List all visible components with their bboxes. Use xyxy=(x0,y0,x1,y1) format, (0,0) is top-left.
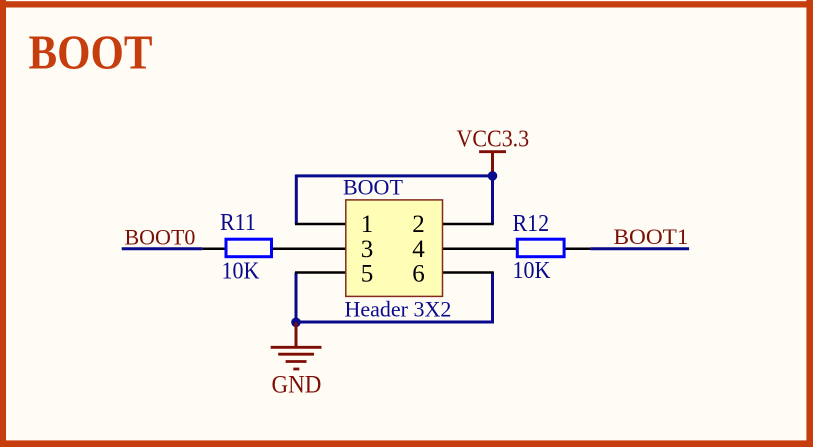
svg-text:GND: GND xyxy=(272,371,322,399)
header P1 pin 2 lead xyxy=(443,223,494,226)
ground GND stem xyxy=(295,322,298,347)
svg-text:6: 6 xyxy=(412,261,425,288)
header P1 pin 6 lead xyxy=(443,271,494,274)
wire right vertical from VCC junction to pin 2 xyxy=(491,175,494,225)
ground GND bar 3 xyxy=(286,360,307,363)
header P1 body (Header 3X2) xyxy=(346,200,443,297)
svg-text:5: 5 xyxy=(361,261,374,288)
resistor R11 right lead xyxy=(273,247,346,250)
svg-text:BOOT: BOOT xyxy=(343,175,403,200)
svg-text:4: 4 xyxy=(412,236,425,263)
svg-text:BOOT0: BOOT0 xyxy=(125,225,196,250)
svg-text:2: 2 xyxy=(412,211,425,238)
resistor R11 body xyxy=(226,239,272,257)
wire left vertical riser to pin 1 xyxy=(295,175,298,225)
ground GND bar 2 xyxy=(278,353,314,356)
wire net BOOT1 horizontal xyxy=(590,247,689,250)
junction dot at GND / bottom wire xyxy=(291,318,301,328)
svg-text:10K: 10K xyxy=(513,257,551,283)
header P1 pin 4 lead xyxy=(443,247,517,250)
junction dot at VCC / pin2 riser xyxy=(488,171,498,181)
ground GND bar 1 xyxy=(271,346,322,349)
header P1 pin 3 lead xyxy=(202,247,224,250)
svg-text:R12: R12 xyxy=(513,210,550,236)
svg-text:10K: 10K xyxy=(222,258,260,284)
resistor R12 right lead xyxy=(566,247,591,250)
wire right vertical from pin 6 down to bottom wire xyxy=(491,273,494,324)
resistor R12 body xyxy=(517,239,564,257)
wire left vertical from pin 5 down to GND junction xyxy=(295,273,298,324)
wire net BOOT0 horizontal xyxy=(122,247,203,250)
svg-text:R11: R11 xyxy=(220,209,256,235)
wire bottom horizontal from GND junction to pin6 riser xyxy=(296,321,493,324)
svg-text:BOOT1: BOOT1 xyxy=(614,224,689,249)
wire top horizontal from pin1 riser to VCC junction xyxy=(296,174,492,177)
svg-text:3: 3 xyxy=(361,236,374,263)
ground GND bar 4 xyxy=(293,368,299,371)
svg-text:Header 3X2: Header 3X2 xyxy=(345,296,452,321)
header P1 pin 5 lead xyxy=(295,271,346,274)
power port VCC3.3 stem xyxy=(491,152,494,176)
svg-text:1: 1 xyxy=(361,211,374,238)
power port VCC3.3 bar xyxy=(479,150,506,153)
header P1 pin 1 lead xyxy=(295,223,346,226)
svg-text:VCC3.3: VCC3.3 xyxy=(457,126,530,152)
svg-text:BOOT: BOOT xyxy=(29,25,153,79)
